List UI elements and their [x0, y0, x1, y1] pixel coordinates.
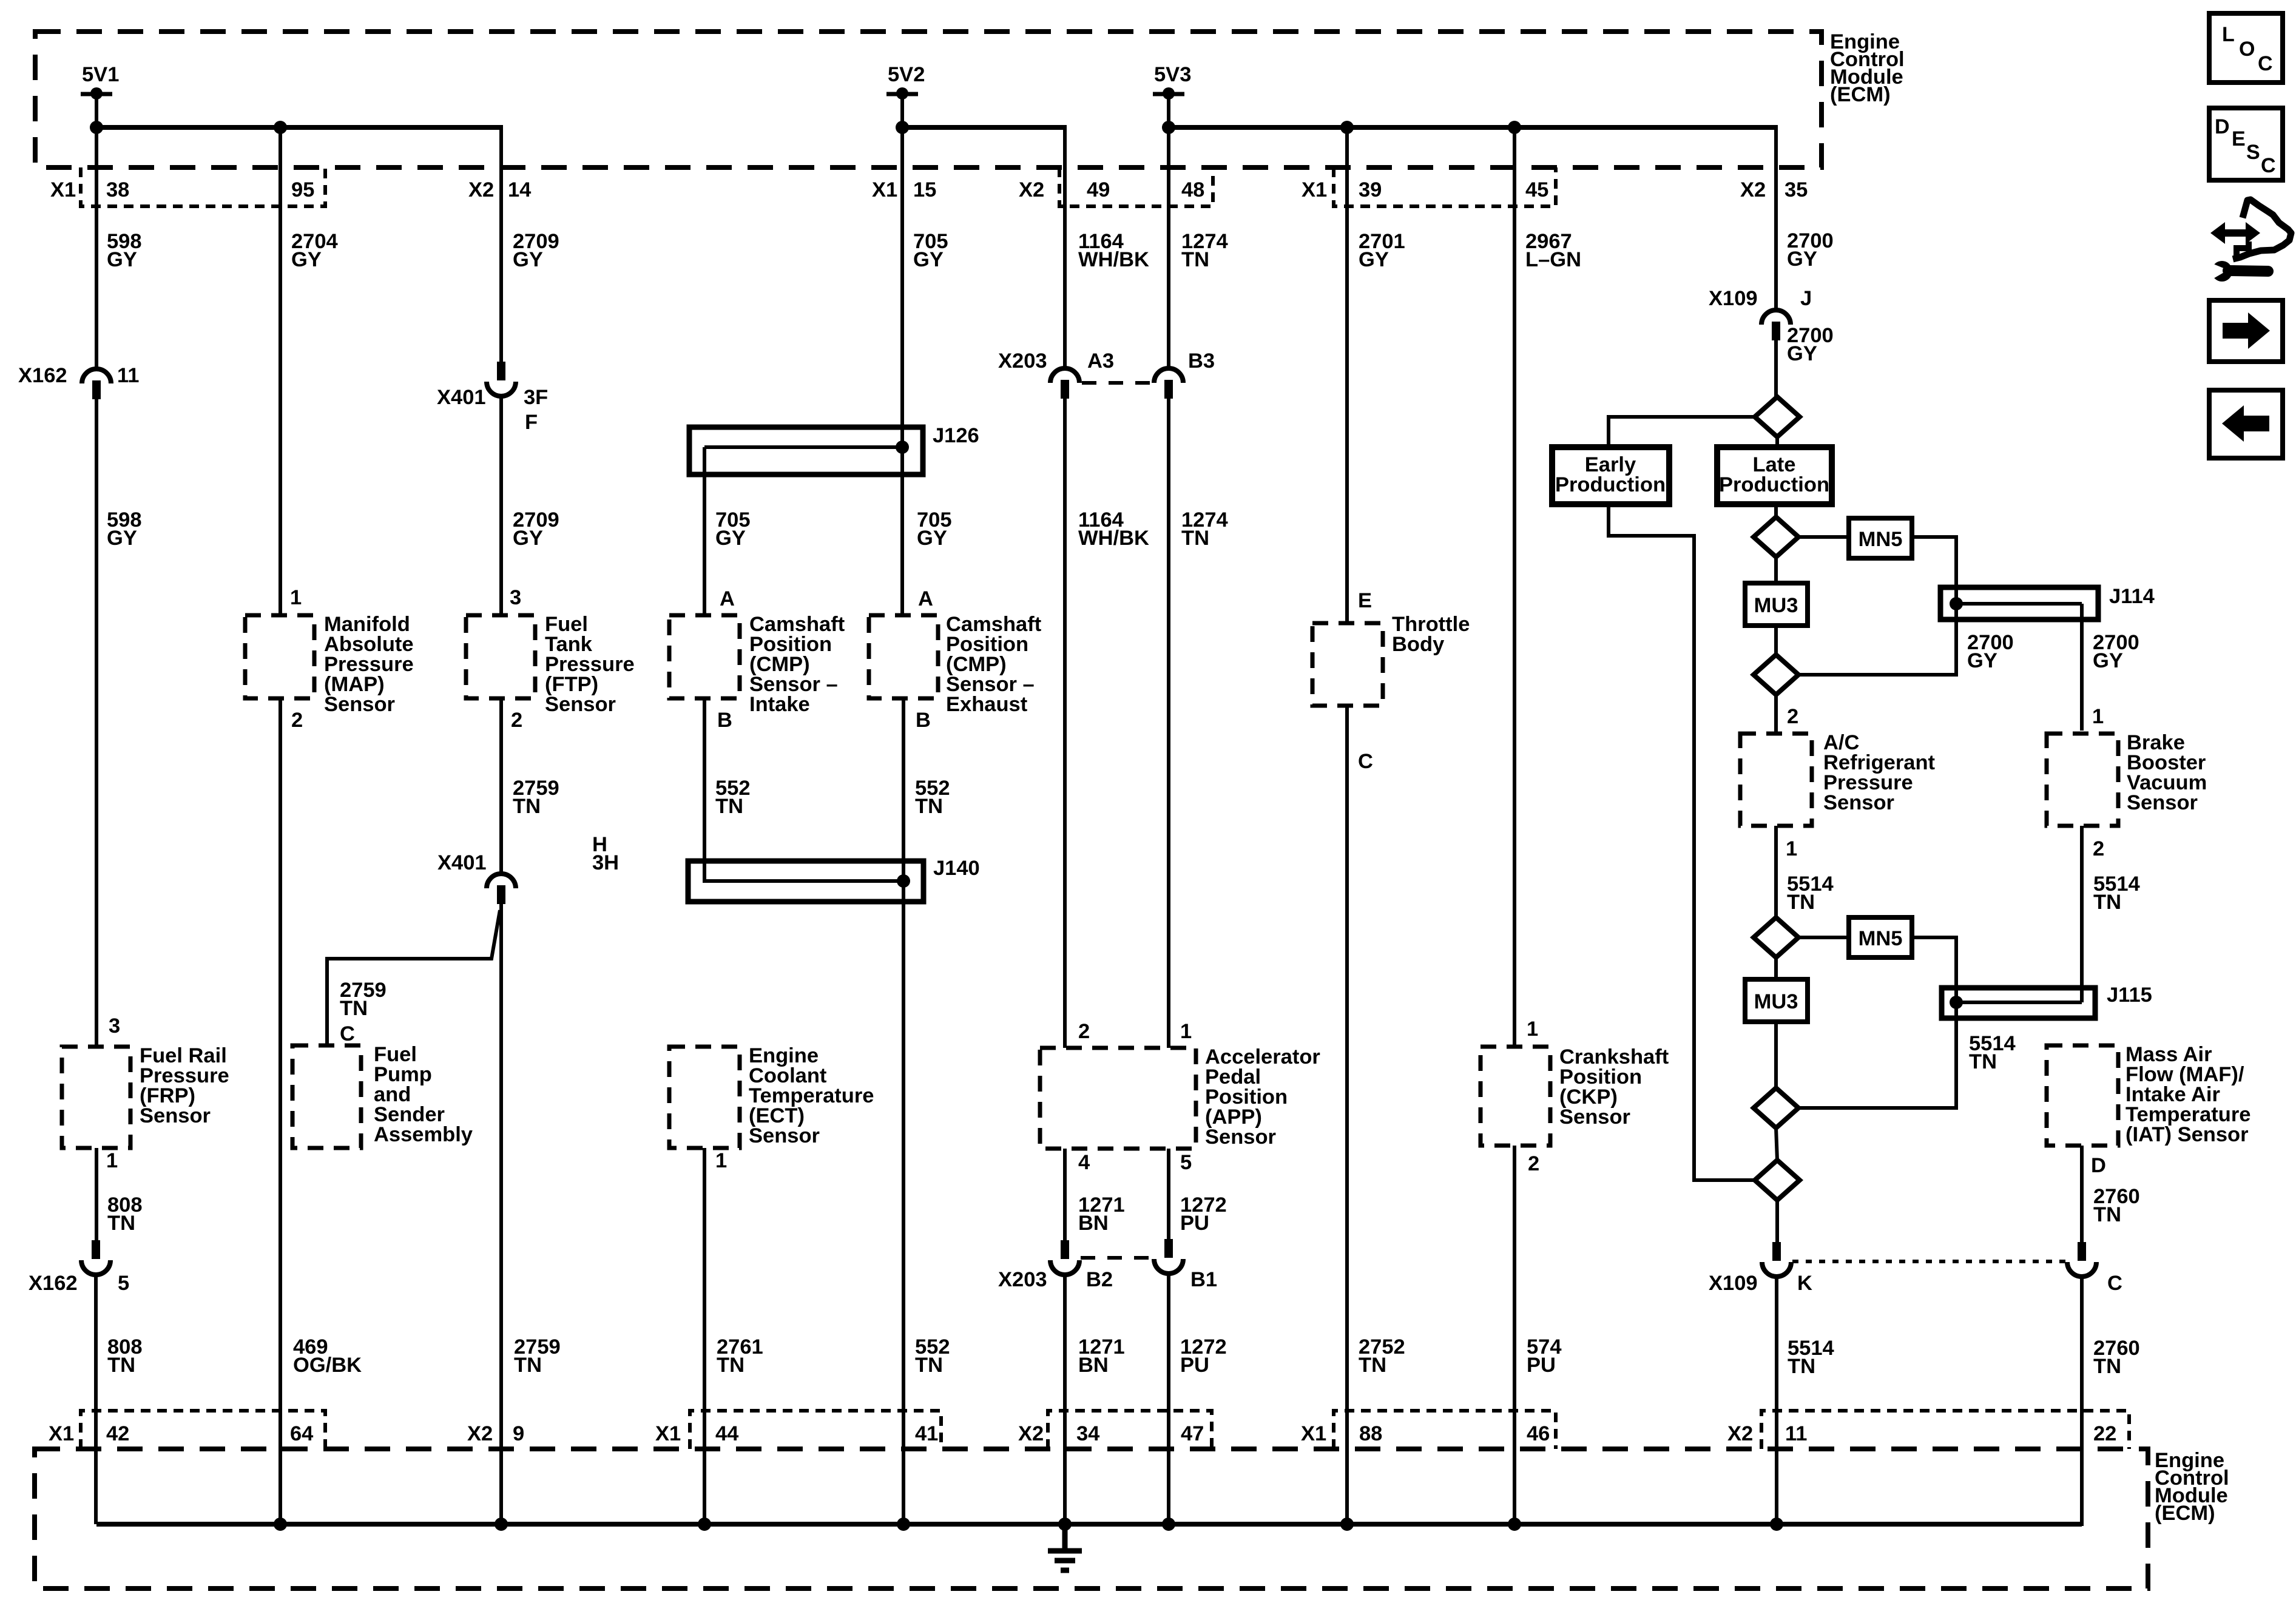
wire bus 5V1 right drop to X401-3F [499, 125, 503, 362]
wire J114 to brake booster [2080, 604, 2084, 731]
wire 1274 TN lower [1167, 399, 1170, 1048]
svg-text:X2: X2 [1019, 178, 1044, 201]
option box MU3 (lower) [1745, 979, 1808, 1022]
wire diamond1 to Late box [1775, 437, 1779, 447]
svg-text:X401: X401 [437, 386, 486, 409]
wire 1272 PU to ECM pin 47 [1167, 1272, 1170, 1524]
connector X401 pin H [487, 874, 516, 888]
svg-text:X1: X1 [655, 1422, 681, 1445]
svg-text:3H: 3H [592, 851, 619, 874]
wire 469 OG/BK [279, 698, 282, 1524]
svg-text:X1: X1 [1301, 1422, 1326, 1445]
inline diamond 5 [1754, 1088, 1798, 1128]
wire 808 TN upper [95, 1148, 98, 1240]
svg-text:46: 46 [1527, 1422, 1550, 1445]
svg-text:B: B [717, 709, 732, 732]
terminal tick 5V1 [81, 92, 112, 96]
ground symbol [1048, 1524, 1082, 1570]
svg-text:11: 11 [117, 364, 139, 387]
pin box X2 11-22 dotted [1761, 1411, 2129, 1449]
inline diamond 2 [1754, 517, 1798, 557]
wire diamond6 to X109-K [1775, 1200, 1779, 1242]
wire 1271 BN upper [1063, 1149, 1067, 1240]
junction 5V3 bus start [1162, 121, 1175, 134]
svg-text:1: 1 [1527, 1018, 1538, 1041]
svg-text:1: 1 [106, 1149, 118, 1172]
wire 2752 TN [1345, 706, 1349, 1524]
icon LOC box [2209, 13, 2283, 83]
pin box X2 34-47 dotted [1048, 1411, 1212, 1449]
svg-text:49: 49 [1087, 178, 1110, 201]
svg-text:47: 47 [1181, 1422, 1204, 1445]
wire diamond5 to diamond6 [1776, 1128, 1777, 1160]
MAP sensor dashed box [245, 615, 314, 698]
svg-text:15: 15 [913, 178, 936, 201]
wire 2760 TN upper [2080, 1146, 2084, 1242]
svg-text:D: D [2091, 1154, 2106, 1177]
svg-text:5: 5 [1180, 1151, 1192, 1174]
svg-text:2: 2 [1787, 705, 1798, 728]
svg-text:X162: X162 [18, 364, 67, 387]
pin box X1 39-45 dotted [1334, 167, 1556, 206]
wire 2759 TN upper [499, 698, 503, 874]
svg-text:1: 1 [2092, 705, 2104, 728]
junction bottom bus x=1926 [1162, 1517, 1175, 1531]
connector X203 pin B1 [1164, 1239, 1173, 1258]
wire 5V3 drop [1167, 94, 1170, 129]
svg-text:705GY: 705GY [913, 230, 948, 271]
junction bottom bus x=462 [274, 1517, 287, 1531]
svg-text:5: 5 [118, 1272, 129, 1295]
icon next-arrow box [2209, 300, 2283, 362]
wire 2700 GY to diamond [1774, 340, 1778, 397]
wire bus 5V2 drop to X203-A3 [1063, 125, 1067, 368]
wire J115 to diamond5 [1798, 1002, 1956, 1108]
svg-text:3: 3 [510, 586, 521, 609]
svg-text:9: 9 [513, 1422, 524, 1445]
svg-text:11: 11 [1785, 1422, 1807, 1445]
svg-text:C: C [1358, 750, 1373, 773]
wire AC sensor to diamond4 [1774, 826, 1778, 917]
connector MAF pin C [2078, 1242, 2086, 1261]
junction on 5V1 bus at pin38 wire [90, 121, 103, 134]
svg-text:MN5: MN5 [1859, 927, 1903, 950]
junction in J126 [896, 441, 909, 454]
svg-text:X203: X203 [998, 1268, 1047, 1291]
icon adjust-repair (arrow hand wrench) [2207, 200, 2291, 282]
wire diamond2 to MU3 [1774, 557, 1778, 583]
svg-text:C: C [2107, 1272, 2122, 1295]
svg-text:X1: X1 [49, 1422, 74, 1445]
svg-text:42: 42 [106, 1422, 129, 1445]
svg-text:X1: X1 [1302, 178, 1327, 201]
pin box X2 49-48 dotted [1059, 167, 1213, 206]
FTP sensor dashed box [466, 615, 535, 698]
CMP exhaust sensor dashed box [869, 615, 938, 698]
wire ground bus [96, 1522, 2082, 1527]
svg-text:X401: X401 [437, 851, 487, 874]
svg-text:14: 14 [508, 178, 531, 201]
fuel pump assembly dashed box [292, 1045, 361, 1148]
wire Late box to diamond2 [1774, 504, 1778, 517]
connector X162 pin 11 [82, 369, 111, 383]
svg-text:1: 1 [715, 1149, 727, 1172]
early production box [1552, 447, 1669, 504]
svg-text:K: K [1797, 1272, 1812, 1295]
svg-text:B1: B1 [1190, 1268, 1217, 1291]
svg-text:48: 48 [1181, 178, 1204, 201]
junction in J115 [1950, 996, 1963, 1009]
wire 2709 GY lower [499, 395, 503, 615]
option box MN5 (lower) [1849, 917, 1912, 957]
svg-text:2: 2 [1528, 1152, 1539, 1175]
wire MU3 to diamond3 [1774, 626, 1778, 655]
connector X203 pin B2 [1061, 1240, 1069, 1259]
svg-text:X109: X109 [1709, 287, 1758, 310]
FRP sensor dashed box [62, 1047, 130, 1148]
svg-text:C: C [340, 1022, 355, 1045]
svg-text:1: 1 [1786, 837, 1797, 860]
svg-text:64: 64 [290, 1422, 313, 1445]
svg-text:598GY: 598GY [107, 230, 142, 271]
wire 5V2 drop [900, 94, 904, 129]
CKP sensor dashed box [1481, 1047, 1550, 1146]
svg-text:E: E [1358, 589, 1372, 612]
svg-text:5V3: 5V3 [1154, 63, 1191, 86]
svg-text:2: 2 [291, 709, 303, 732]
svg-text:5V1: 5V1 [82, 63, 119, 86]
wire 5V1 drop [95, 94, 98, 129]
junction on 5V1 bus at pin95 wire [274, 121, 287, 134]
junction in J140 [897, 874, 910, 888]
svg-text:J115: J115 [2107, 984, 2152, 1007]
wire 2967 L-GN [1513, 127, 1516, 1047]
svg-text:2: 2 [511, 709, 522, 732]
svg-text:X2: X2 [1727, 1422, 1753, 1445]
svg-text:1: 1 [1180, 1020, 1192, 1043]
junction bottom bus x=1755 [1058, 1517, 1072, 1531]
svg-text:705GY: 705GY [917, 508, 952, 550]
svg-text:X162: X162 [29, 1272, 78, 1295]
wire 2704 GY [279, 127, 282, 615]
svg-text:3F: 3F [524, 386, 548, 409]
svg-text:5V2: 5V2 [888, 63, 925, 86]
icon back-arrow box [2209, 390, 2283, 458]
wire 2761 TN [703, 1148, 706, 1524]
wire diamond3 to J114 bottom [1798, 604, 1956, 675]
connector X401 pin 3F [497, 362, 505, 380]
pin box X1 38-95 dotted [81, 167, 325, 206]
tie X203 A3-B3 dashed [1082, 381, 1152, 385]
APP sensor dashed box [1040, 1048, 1196, 1149]
svg-text:39: 39 [1359, 178, 1382, 201]
wire Early Production to lower run [1609, 504, 1754, 1180]
wire 598 GY upper [95, 127, 98, 369]
svg-text:X109: X109 [1709, 1272, 1758, 1295]
wire bus 5V3 drop to X109-J [1774, 125, 1778, 310]
svg-text:95: 95 [291, 178, 314, 201]
svg-text:MU3: MU3 [1754, 594, 1798, 617]
wire 552 TN intake to J140 [704, 698, 903, 881]
svg-text:1: 1 [290, 586, 302, 609]
wire diamond4 to MU3 lower [1774, 957, 1778, 979]
svg-text:J114: J114 [2109, 585, 2155, 608]
svg-text:44: 44 [715, 1422, 738, 1445]
wire 1272 PU upper [1167, 1149, 1170, 1239]
wire brake booster to J115 [2080, 826, 2084, 1002]
option box MN5 (upper) [1849, 518, 1912, 558]
svg-text:4: 4 [1078, 1151, 1090, 1174]
svg-text:2: 2 [2093, 837, 2104, 860]
terminal tick 5V2 [886, 92, 918, 96]
svg-text:X2: X2 [1740, 178, 1766, 201]
wire to Early Production [1609, 417, 1755, 447]
terminal tick 5V3 [1153, 92, 1184, 96]
junction in J114 [1950, 597, 1963, 610]
svg-text:38: 38 [106, 178, 129, 201]
svg-text:X2: X2 [1018, 1422, 1044, 1445]
svg-text:45: 45 [1525, 178, 1548, 201]
svg-text:F: F [525, 411, 538, 434]
MAF IAT sensor box [2047, 1045, 2118, 1146]
svg-text:MU3: MU3 [1754, 990, 1798, 1013]
svg-text:598GY: 598GY [107, 508, 142, 550]
svg-text:X1: X1 [50, 178, 76, 201]
wire 2759 TN to ECM pin 9 [499, 904, 503, 1524]
AC refrigerant pressure sensor box [1740, 734, 1812, 826]
wire diamond3 to AC sensor [1774, 695, 1778, 734]
svg-text:X203: X203 [998, 349, 1047, 373]
svg-text:J: J [1800, 287, 1812, 310]
wire 2759 TN branch to fuel pump [327, 910, 500, 1045]
wire 1274 TN upper [1167, 127, 1170, 368]
wire 598 GY lower [95, 399, 98, 1047]
svg-text:2: 2 [1078, 1020, 1090, 1043]
wire 1271 BN to ECM pin 34 [1063, 1274, 1067, 1524]
pin box X1 88-46 dotted [1334, 1411, 1556, 1449]
wire 705 GY main [900, 127, 904, 615]
junction bottom bus x=826 [495, 1517, 508, 1531]
option box MU3 (upper) [1745, 583, 1808, 626]
wire 552 TN exhaust [902, 698, 905, 1524]
wire diamond4 to MN5 lower [1798, 936, 1849, 939]
wire 1164 WH/BK lower [1063, 399, 1067, 1048]
connector X203 pin B3 [1154, 368, 1183, 383]
svg-text:X2: X2 [468, 178, 494, 201]
tie X203 B2-B1 dashed [1081, 1256, 1151, 1260]
svg-text:22: 22 [2093, 1422, 2116, 1445]
wire diamond2 to MN5 [1798, 535, 1849, 539]
splice box J115 [1942, 988, 2095, 1018]
connector X109 pin J [1761, 310, 1791, 325]
svg-text:88: 88 [1359, 1422, 1382, 1445]
svg-text:X2: X2 [467, 1422, 493, 1445]
splice J114 inner lead [1956, 602, 2082, 606]
splice box J114 [1940, 587, 2098, 619]
junction 5V3 bus at pin45 wire [1508, 121, 1521, 134]
wire 5514 TN to ECM pin 11 [1775, 1275, 1778, 1524]
CMP intake sensor dashed box [669, 615, 740, 698]
ECM top dashed box outline [35, 32, 1822, 167]
svg-text:A3: A3 [1087, 349, 1114, 373]
late production box [1717, 447, 1832, 504]
svg-text:41: 41 [915, 1422, 938, 1445]
svg-text:MN5: MN5 [1859, 528, 1903, 551]
junction bottom bus x=1161 [698, 1517, 711, 1531]
wire bus 5V3 [1166, 125, 1776, 130]
junction bottom bus x=1489 [897, 1517, 910, 1531]
svg-text:B: B [916, 709, 931, 732]
splice J126 inner lead [704, 445, 902, 449]
splice box J126 [689, 427, 923, 474]
wire bus 5V2 [900, 125, 1065, 130]
connector X109 pin K [1772, 1242, 1781, 1261]
svg-text:X1: X1 [872, 178, 897, 201]
throttle body dashed box [1312, 623, 1383, 706]
svg-text:705GY: 705GY [715, 508, 751, 550]
junction bottom bus x=2928 [1770, 1517, 1783, 1531]
inline diamond 6 [1755, 1160, 1800, 1200]
junction bottom bus x=2220 [1340, 1517, 1354, 1531]
inline diamond 1 [1755, 397, 1800, 437]
svg-text:J126: J126 [933, 424, 979, 447]
wire 574 PU [1513, 1146, 1516, 1524]
connector X203 pin A3 [1050, 368, 1079, 383]
junction on 5V2 bus [896, 121, 909, 134]
wire 705 GY branch to CMP intake [703, 447, 706, 615]
svg-text:34: 34 [1076, 1422, 1099, 1445]
wire bus 5V1 [94, 125, 501, 130]
pin box X1 42-64 dotted [81, 1411, 325, 1449]
junction 5V3 bus at pin39 wire [1340, 121, 1354, 134]
ECM bottom dashed box outline [35, 1449, 2148, 1588]
pin box X1 44-41 dotted [690, 1411, 941, 1449]
svg-text:J140: J140 [933, 857, 980, 880]
wire 2760 TN to ECM pin 22 [2079, 1275, 2082, 1524]
wire MU3 lower to diamond5 [1774, 1022, 1778, 1088]
brake booster vacuum sensor box [2047, 734, 2118, 826]
inline diamond 4 [1754, 917, 1798, 957]
svg-text:B2: B2 [1086, 1268, 1113, 1291]
splice box J140 [688, 861, 923, 902]
ECT sensor dashed box [669, 1047, 740, 1148]
svg-text:35: 35 [1784, 178, 1808, 201]
svg-text:A: A [918, 587, 933, 610]
tie X109 K-C dotted [1792, 1260, 2065, 1263]
wire MN5 lower to J115 top [1912, 937, 1956, 1002]
wire 808 TN to ECM pin 42 [94, 1274, 98, 1524]
wire MN5 to J114 top [1912, 537, 1956, 604]
svg-text:A: A [720, 587, 735, 610]
svg-text:3: 3 [109, 1014, 120, 1038]
connector X162 pin 5 [92, 1240, 100, 1259]
splice J115 inner lead [1956, 1001, 2082, 1004]
icon DESC box [2209, 108, 2283, 180]
inline diamond 3 [1754, 655, 1798, 695]
junction bottom bus x=2496 [1508, 1517, 1521, 1531]
svg-text:B3: B3 [1188, 349, 1215, 373]
wire 2701 GY [1345, 127, 1349, 623]
